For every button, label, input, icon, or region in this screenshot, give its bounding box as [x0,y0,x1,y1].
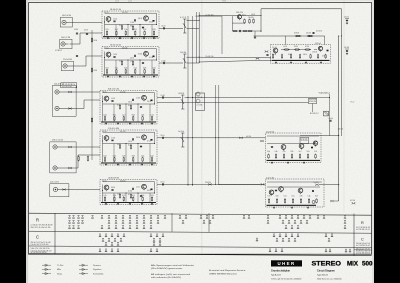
svg-text:10k 22k: 10k 22k [162,26,166,28]
svg-text:Valid from ser.-no. 2342000: Valid from ser.-no. 2342000 [317,278,342,280]
svg-text:BC149: BC149 [132,114,135,116]
svg-text:1,5k 47n 33k: 1,5k 47n 33k [108,128,119,130]
svg-text:Grundschaltplan: Grundschaltplan [271,270,291,273]
svg-text:1n5 1,5k 1M 1M 1,5k: 1n5 1,5k 1M 1M 1,5k [62,84,75,86]
svg-text:1,5k: 1,5k [141,155,144,157]
svg-text:390 560: 390 560 [143,29,146,31]
svg-text:390 15k 1n5 560: 390 15k 1n5 560 [110,45,121,47]
svg-text:2,2 4n7: 2,2 4n7 [272,47,277,49]
svg-text:100 0,22 6,8k: 100 0,22 6,8k [266,131,274,133]
svg-text:4,7k: 4,7k [283,151,286,153]
svg-text:10k 0,1 1M: 10k 0,1 1M [61,37,71,39]
svg-text:1n5 120k: 1n5 120k [246,136,251,138]
svg-text:0,1 100: 0,1 100 [284,196,287,198]
svg-text:0,1 2,2: 0,1 2,2 [180,17,186,19]
svg-text:Kontaktfolie: Kontaktfolie [93,272,104,275]
svg-text:1n5 0,1 47n: 1n5 0,1 47n [301,138,308,140]
svg-text:(Ri=10kΩ/V) gemessen.: (Ri=10kΩ/V) gemessen. [151,267,184,270]
svg-text:BC149 1M 2,2 15k 1,5k: BC149 1M 2,2 15k 1,5k [356,251,370,253]
svg-text:Typ A 124: Typ A 124 [271,274,281,277]
svg-text:4n7 15k 1M 4,7k 0,1: 4n7 15k 1M 4,7k 0,1 [356,229,370,231]
svg-text:2,2 0,1: 2,2 0,1 [136,187,140,189]
svg-text:0,22 0,1 47n: 0,22 0,1 47n [50,181,59,183]
svg-text:5,6k 22k: 5,6k 22k [128,102,132,104]
svg-text:100 6,8k: 100 6,8k [122,48,128,50]
svg-text:22k 47n: 22k 47n [84,30,88,32]
svg-text:47n 1,5k: 47n 1,5k [120,131,126,133]
svg-text:Alle Spannungen sind mit Voltm: Alle Spannungen sind mit Voltmeter [151,264,194,267]
svg-text:0,1 100: 0,1 100 [111,138,115,140]
svg-text:1M 1,5k: 1M 1,5k [105,29,108,31]
svg-text:5,6k: 5,6k [275,151,278,153]
svg-text:Skala: Skala [57,273,63,275]
svg-text:22k 1n5 390: 22k 1n5 390 [63,59,72,61]
svg-text:10k 390: 10k 390 [74,29,78,31]
svg-text:5,6k 120k: 5,6k 120k [314,182,319,184]
svg-text:1n5 100: 1n5 100 [111,98,115,100]
svg-text:5,6k: 5,6k [119,61,123,63]
svg-text:390 6,8k: 390 6,8k [150,195,153,197]
svg-text:1,5k 5,6k: 1,5k 5,6k [266,177,274,179]
svg-text:390 390: 390 390 [94,70,98,72]
svg-text:22k 47n 120k: 22k 47n 120k [301,140,308,142]
svg-text:15k 6,8k 5,6k 4n7 5,6k: 15k 6,8k 5,6k 4n7 5,6k [356,243,370,245]
svg-text:4,7k: 4,7k [103,195,106,197]
svg-text:STEREO: STEREO [312,262,342,268]
svg-text:1M 0,22 1,5k 10k 1n5 15k: 1M 0,22 1,5k 10k 1n5 15k [31,227,51,229]
svg-text:1M BC149: 1M BC149 [117,144,121,146]
svg-text:120k 10k: 120k 10k [147,101,151,103]
svg-text:120k 100: 120k 100 [306,32,311,34]
svg-text:5,6k 4,7k 1,5k 100 1,5k: 5,6k 4,7k 1,5k 100 1,5k [31,248,50,250]
svg-text:0,1 10k: 0,1 10k [150,114,153,116]
svg-text:47n 2,2: 47n 2,2 [350,102,354,104]
svg-text:6,8k 15k: 6,8k 15k [138,18,142,20]
svg-text:0,22: 0,22 [128,144,132,146]
svg-text:Signalton: Signalton [93,268,101,271]
svg-text:33k 10k: 33k 10k [147,190,151,192]
svg-text:6,8k: 6,8k [143,67,146,69]
svg-text:120k: 120k [103,114,106,116]
svg-text:1n5 22k: 1n5 22k [104,12,109,14]
svg-text:33k 10k 47n 10k: 33k 10k 47n 10k [110,9,121,11]
svg-text:33k 1n5: 33k 1n5 [102,92,107,94]
svg-text:33k 120k: 33k 120k [103,155,106,157]
svg-text:Circuit Diagram: Circuit Diagram [317,270,335,273]
svg-text:0,1 BC149: 0,1 BC149 [312,52,317,54]
svg-text:5,6k 33k: 5,6k 33k [180,52,186,54]
svg-text:5,6k 2,2: 5,6k 2,2 [344,17,349,19]
svg-text:1,5k: 1,5k [113,195,116,197]
svg-text:4n7 1M 120k 22k 1M 10k: 4n7 1M 120k 22k 1M 10k [31,252,47,254]
svg-text:4n7 1n5: 4n7 1n5 [322,55,326,57]
svg-text:22k 1n5: 22k 1n5 [161,135,165,137]
svg-text:4n7 120k: 4n7 120k [134,67,137,69]
svg-text:0,1 100: 0,1 100 [113,155,116,157]
svg-text:390 4n7 0,22 4n7 1,5k 1M: 390 4n7 0,22 4n7 1,5k 1M [31,242,52,244]
svg-text:1M 0,1 390: 1M 0,1 390 [122,12,128,14]
svg-text:2,2 560: 2,2 560 [136,98,140,100]
svg-text:6,8k BC149: 6,8k BC149 [294,32,299,34]
svg-text:1M 100: 1M 100 [152,29,155,31]
svg-text:1M BC149: 1M BC149 [132,155,135,157]
svg-text:120k 15k: 120k 15k [236,12,243,14]
svg-text:4,7k 15k: 4,7k 15k [120,92,126,94]
svg-text:2,2 2,2: 2,2 2,2 [128,1,132,3]
svg-text:15k 33k: 15k 33k [122,155,125,157]
svg-text:2,2 120k: 2,2 120k [197,105,203,107]
svg-text:120k 390: 120k 390 [136,137,140,139]
svg-text:15k 1n5: 15k 1n5 [338,128,344,130]
svg-text:15k 560: 15k 560 [128,105,132,107]
svg-text:Type A 124: Type A 124 [317,274,329,277]
svg-text:1n5 4,7k 4,7k: 1n5 4,7k 4,7k [309,99,316,101]
svg-text:560 0,1: 560 0,1 [242,15,246,17]
svg-text:47n 0,1: 47n 0,1 [115,67,118,69]
svg-text:6,8k 1,5k 33k: 6,8k 1,5k 33k [62,15,71,17]
svg-text:0,1 33k: 0,1 33k [268,196,271,198]
svg-text:4n7 560: 4n7 560 [305,46,309,48]
svg-text:R: R [361,221,364,225]
svg-text:0,1 22k: 0,1 22k [130,61,134,63]
svg-text:22k 390: 22k 390 [119,25,123,27]
svg-text:BC149 120k: BC149 120k [309,101,316,103]
svg-text:4,7k 4,7k 22k 4n7: 4,7k 4,7k 22k 4n7 [62,86,72,88]
svg-text:390 15k: 390 15k [315,196,318,198]
svg-text:120k: 120k [141,114,144,116]
svg-text:100 1,5k: 100 1,5k [292,196,295,198]
svg-text:1n5 33k: 1n5 33k [102,131,107,133]
svg-text:120k 120k: 120k 120k [248,17,254,19]
svg-text:1M 0,22: 1M 0,22 [149,21,153,23]
svg-text:6,8k 47n: 6,8k 47n [303,54,307,56]
svg-text:2,2 120k: 2,2 120k [130,22,134,24]
svg-text:47n 4,7k: 47n 4,7k [147,140,151,142]
svg-text:C: C [361,238,364,242]
svg-text:1M 22k: 1M 22k [134,29,137,31]
svg-text:1M 1n5: 1M 1n5 [132,195,135,197]
svg-text:5,6k: 5,6k [267,151,270,153]
svg-text:1,5k 22k: 1,5k 22k [251,14,255,16]
svg-text:390 10k: 390 10k [94,40,98,42]
svg-text:1,5k BC149: 1,5k BC149 [178,93,184,95]
svg-text:2,2 120k: 2,2 120k [314,151,317,153]
svg-text:4,7k 390: 4,7k 390 [162,60,166,62]
svg-text:10k 0,1 0,22: 10k 0,1 0,22 [52,140,63,142]
svg-text:1,5k 120k: 1,5k 120k [113,54,117,56]
svg-text:4n7 5,6k: 4n7 5,6k [128,194,132,196]
svg-text:C: C [36,234,39,239]
svg-text:15k 33k: 15k 33k [276,196,279,198]
svg-text:390 15k: 390 15k [113,114,116,116]
svg-text:15k 560: 15k 560 [152,67,155,69]
svg-text:All voltages (mV) are measured: All voltages (mV) are measured [151,273,190,276]
svg-text:1,5k 47n: 1,5k 47n [128,141,132,143]
svg-text:1M 33k 33k: 1M 33k 33k [120,181,126,183]
svg-text:MIX: MIX [347,262,358,268]
svg-text:6,8k 1n5 5,6k: 6,8k 1n5 5,6k [108,89,119,91]
svg-text:560 0,22: 560 0,22 [115,29,118,31]
svg-text:1n5 5,6k: 1n5 5,6k [178,131,184,133]
svg-text:5,6k 1n5: 5,6k 1n5 [329,118,334,120]
svg-text:390 2,2: 390 2,2 [130,25,134,27]
svg-text:VU(0,5)/0,2: VU(0,5)/0,2 [319,92,331,94]
svg-text:100 1n5: 100 1n5 [315,43,321,45]
svg-text:UHER WERKE München: UHER WERKE München [209,273,237,275]
svg-text:22k 120k: 22k 120k [128,191,132,193]
svg-text:5,6k 4,7k: 5,6k 4,7k [161,182,165,184]
svg-text:0,1 0,1: 0,1 0,1 [122,114,125,116]
svg-text:1,5k: 1,5k [308,196,311,198]
svg-text:4,7k: 4,7k [300,196,303,198]
svg-text:22k 22k: 22k 22k [205,182,211,184]
svg-text:0,1 1M: 0,1 1M [149,57,154,59]
svg-text:0,22 22k 33k 15k 6,8k: 0,22 22k 33k 15k 6,8k [356,253,370,255]
svg-text:22k 6,8k 5,6k: 22k 6,8k 5,6k [205,56,213,58]
svg-text:47n 2,2 BC149 10k 22k: 47n 2,2 BC149 10k 22k [356,227,370,229]
svg-text:UHER: UHER [277,261,295,266]
svg-text:2,2 6,8k: 2,2 6,8k [197,97,203,99]
svg-text:Tl.-Plat: Tl.-Plat [57,264,64,267]
svg-text:MHz: MHz [57,269,61,271]
svg-text:4n7 120k: 4n7 120k [350,200,355,202]
svg-text:Siemens: Siemens [93,265,101,267]
svg-text:1,5k 1M: 1,5k 1M [161,95,166,97]
svg-text:1M 4n7: 1M 4n7 [288,54,292,56]
svg-text:0,22: 0,22 [122,195,125,197]
svg-text:0,22: 0,22 [150,155,153,157]
svg-text:22k 33k: 22k 33k [307,151,310,153]
svg-text:10k 15k: 10k 15k [102,181,107,183]
svg-text:500: 500 [362,262,373,268]
svg-text:0,22 10k: 0,22 10k [130,58,134,60]
svg-text:4,7k BC149: 4,7k BC149 [222,1,226,3]
svg-text:390 560: 390 560 [124,67,127,69]
svg-text:with voltmeter (R=10kΩ/V): with voltmeter (R=10kΩ/V) [151,276,181,279]
svg-text:G.Sch. gilt für Geräte-Nr. 234: G.Sch. gilt für Geräte-Nr. 2342002 [271,277,302,280]
svg-text:2,2 560 4n7 47n 390 6,8k BC149: 2,2 560 4n7 47n 390 6,8k BC149 [31,225,53,227]
svg-text:560 390: 560 390 [117,105,121,107]
svg-text:0,1 1M 0,22: 0,1 1M 0,22 [55,50,62,52]
svg-text:4n7 0,22: 4n7 0,22 [104,48,109,50]
svg-text:47n 33k: 47n 33k [344,47,349,49]
svg-text:33k 33k: 33k 33k [111,187,115,189]
svg-text:1n5 1,5k: 1n5 1,5k [283,46,287,48]
svg-text:1,5k: 1,5k [124,29,127,31]
svg-text:1n5 0,1: 1n5 0,1 [299,151,302,153]
svg-text:10k 5,6k: 10k 5,6k [113,19,117,21]
svg-text:Ersatzteil und Reparatur-Servi: Ersatzteil und Reparatur-Service: [209,269,247,272]
svg-text:100 BC149 560: 100 BC149 560 [108,178,119,180]
svg-text:R: R [36,218,39,223]
svg-text:1,5k: 1,5k [117,194,121,196]
svg-text:120k 5,6k 22k 1M 10k 6,8k 4n7: 120k 5,6k 22k 1M 10k 6,8k 4n7 [31,250,52,252]
svg-text:1,5k 0,22: 1,5k 0,22 [115,1,119,3]
svg-text:4n7 4,7k: 4n7 4,7k [316,30,322,32]
svg-text:4n7 2,2 BC149 15k 4n7: 4n7 2,2 BC149 15k 4n7 [356,245,370,247]
svg-text:BC149 2,2: BC149 2,2 [310,113,319,115]
svg-text:390 6,8k: 390 6,8k [138,54,142,56]
svg-text:1M 4,7k: 1M 4,7k [294,46,298,48]
svg-text:1,5k 4n7 4n7 4,7k 15k 100: 1,5k 4n7 4n7 4,7k 15k 100 [31,244,49,246]
svg-text:47n 100: 47n 100 [105,67,108,69]
svg-text:120k: 120k [291,151,294,153]
